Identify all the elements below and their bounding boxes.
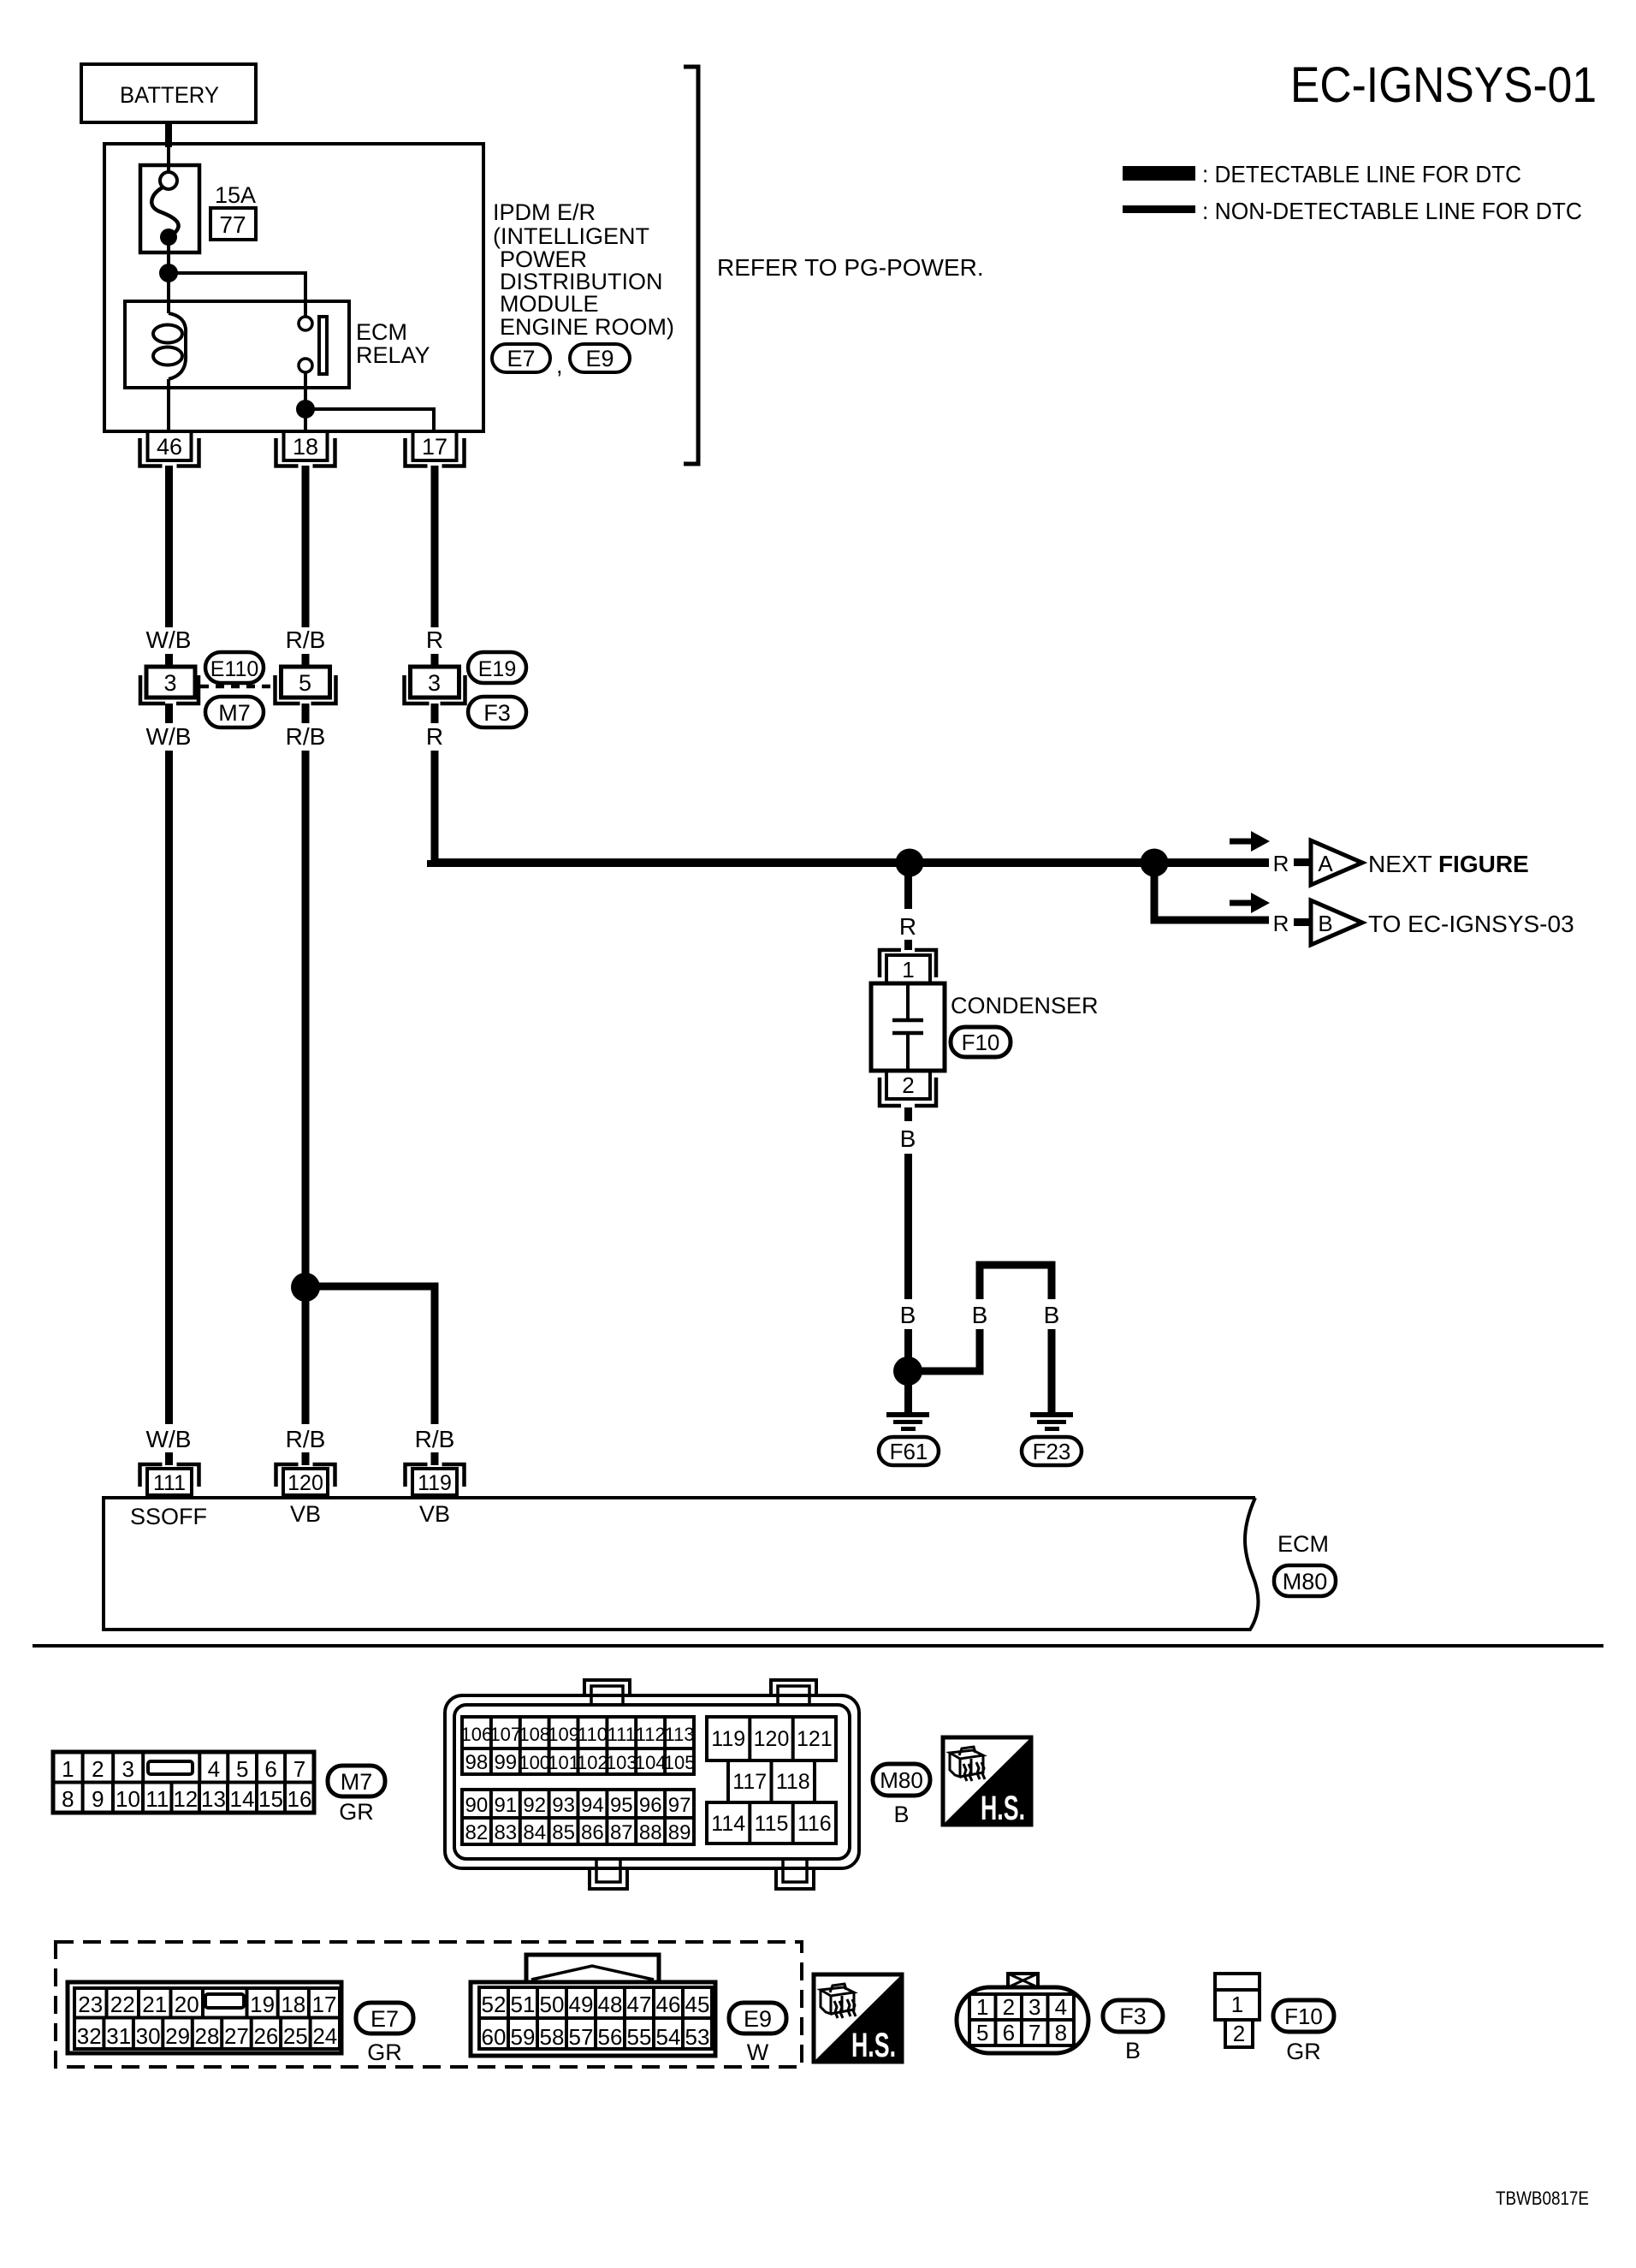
svg-text:51: 51 [511,1992,536,2017]
wire R from pin 17 [431,466,439,627]
svg-text:H.S.: H.S. [851,2027,896,2064]
svg-text:108: 108 [519,1724,550,1745]
connector M7 oval [205,697,264,727]
svg-text:B: B [893,1802,909,1827]
svg-text:25: 25 [283,2023,308,2049]
svg-text:29: 29 [165,2023,190,2049]
svg-text:5: 5 [236,1756,248,1782]
connector M80 oval label [1274,1565,1336,1596]
svg-text:28: 28 [195,2023,220,2049]
svg-text:F3: F3 [483,700,511,726]
svg-text:54: 54 [656,2024,681,2050]
svg-text:R/B: R/B [286,1426,326,1452]
svg-text:18: 18 [281,1992,305,2017]
svg-text:107: 107 [489,1724,521,1745]
svg-text:B: B [1125,2038,1141,2063]
svg-text:106: 106 [461,1724,493,1745]
condenser F10 body [871,983,945,1071]
connector F61 oval [879,1437,939,1465]
svg-text:5: 5 [299,670,311,696]
svg-text:46: 46 [656,1992,681,2017]
wire R down to trunk [431,751,439,863]
wire W/B long run [165,751,173,1424]
legend non-detectable line swatch [1123,205,1195,213]
connector M7 grid [53,1752,314,1813]
connector E7 grid [68,1982,341,2053]
svg-text:121: 121 [797,1727,833,1751]
svg-text:4: 4 [1055,1994,1067,2020]
triangle B to EC-IGNSYS-03 [1311,900,1362,945]
svg-text:17: 17 [422,434,448,460]
legend detectable line swatch [1123,166,1195,181]
connector E7 oval [492,344,550,372]
junction dot relay output [296,400,315,419]
connector E9 oval label [729,2003,786,2033]
svg-text:5: 5 [976,2020,988,2045]
pin 120 [276,1464,335,1487]
svg-text:1: 1 [62,1756,74,1782]
svg-text:B: B [1044,1302,1060,1328]
wire R/B from pin 18 [302,466,310,627]
svg-text:R: R [899,913,916,940]
svg-text:57: 57 [569,2024,594,2050]
connector F3 oval label [1103,2000,1163,2032]
arrow A [1230,839,1254,845]
ECM relay box [125,301,349,388]
svg-text:M80: M80 [880,1767,923,1793]
svg-text:7: 7 [1028,2020,1040,2045]
svg-text:50: 50 [540,1992,565,2017]
svg-text:111: 111 [608,1724,636,1745]
refer bracket [684,67,698,464]
pin 18 [284,431,328,460]
junction dot below fuse [159,264,178,282]
svg-text:115: 115 [755,1812,789,1836]
svg-text:21: 21 [142,1992,167,2017]
svg-text:BATTERY: BATTERY [120,82,219,108]
svg-text:104: 104 [635,1752,667,1773]
svg-text:113: 113 [665,1724,695,1745]
svg-text:B: B [1318,911,1332,936]
svg-text:88: 88 [639,1821,662,1844]
svg-text:ENGINE ROOM): ENGINE ROOM) [500,314,674,340]
svg-text:E9: E9 [744,2006,772,2032]
branch R/B to pin 119 [305,1286,435,1424]
svg-text:E110: E110 [210,657,259,681]
svg-text:93: 93 [552,1794,575,1817]
svg-text:119: 119 [418,1471,452,1495]
svg-text:101: 101 [548,1752,579,1773]
svg-text:TO EC-IGNSYS-03: TO EC-IGNSYS-03 [1368,911,1574,937]
svg-text:F10: F10 [1284,2004,1323,2029]
svg-text:B: B [900,1125,916,1152]
svg-text:M7: M7 [218,700,251,726]
svg-text:W/B: W/B [146,723,192,750]
inline connector 3 (E110/M7 left) [146,667,195,698]
svg-text:RELAY: RELAY [356,342,430,368]
svg-text:: DETECTABLE LINE FOR DTC: : DETECTABLE LINE FOR DTC [1202,161,1521,187]
wire stubs above connector row [165,654,173,668]
svg-text:24: 24 [312,2023,337,2049]
svg-text:2: 2 [1233,2021,1245,2046]
connector F10 oval label [951,1027,1011,1057]
svg-text:6: 6 [264,1756,276,1782]
svg-text:85: 85 [552,1821,575,1844]
svg-text:(INTELLIGENT: (INTELLIGENT [493,223,649,249]
svg-text:2: 2 [92,1756,104,1782]
svg-text:VB: VB [419,1501,450,1527]
svg-text:15A: 15A [215,182,256,208]
svg-text:REFER TO PG-POWER.: REFER TO PG-POWER. [717,254,984,281]
svg-text:118: 118 [776,1770,810,1794]
junction dot trunk B-branch [1141,849,1169,877]
svg-text:VB: VB [290,1501,321,1527]
svg-text:W/B: W/B [146,1426,192,1452]
condenser pin 2 box [886,1071,930,1099]
svg-text:20: 20 [175,1992,199,2017]
svg-text:16: 16 [287,1786,312,1812]
inline connector 3 (E19/F3) [411,667,459,698]
svg-text:86: 86 [581,1821,604,1844]
svg-text:109: 109 [548,1724,579,1745]
svg-text:GR: GR [339,1799,374,1825]
relay contact bar [319,317,327,374]
inline connector 5 [282,667,330,698]
svg-text:56: 56 [598,2024,623,2050]
wire below condenser [904,1107,912,1121]
left leg down to junction [908,1329,980,1371]
svg-text:3: 3 [1028,1994,1040,2020]
connector E110 oval [205,652,264,683]
connector F23 oval [1022,1437,1082,1465]
svg-text:22: 22 [110,1992,135,2017]
svg-text:47: 47 [627,1992,652,2017]
separator line [33,1644,1603,1648]
svg-text:103: 103 [606,1752,637,1773]
svg-text:46: 46 [157,434,182,460]
svg-text:112: 112 [636,1724,666,1745]
connector E9 grid [526,1955,659,1982]
condenser pin 1 box [886,955,930,983]
svg-text:26: 26 [253,2023,278,2049]
svg-text:15: 15 [258,1786,283,1812]
connector F10 oval label bottom [1273,2000,1334,2032]
svg-text:12: 12 [173,1786,198,1812]
branch to pin 17 [305,409,434,431]
svg-text:119: 119 [711,1727,745,1751]
svg-text:97: 97 [668,1794,691,1817]
svg-text:23: 23 [78,1992,103,2017]
ground symbol F61 [886,1412,929,1417]
svg-text:1: 1 [976,1994,988,2020]
svg-text:IPDM E/R: IPDM E/R [493,199,596,225]
svg-text:110: 110 [578,1724,608,1745]
pin 119 [406,1464,465,1487]
svg-text:18: 18 [293,434,318,460]
B branch wire [1154,863,1269,920]
wire R/B long run [302,751,310,1424]
svg-text:2: 2 [1003,1994,1015,2020]
svg-text:120: 120 [287,1471,323,1495]
ground junction dot [893,1357,922,1386]
svg-text:F10: F10 [962,1030,1000,1055]
relay contact circles [299,317,312,330]
svg-text:R/B: R/B [286,723,326,750]
svg-text:GR: GR [1286,2039,1321,2064]
svg-text:90: 90 [465,1794,489,1817]
svg-text:95: 95 [610,1794,633,1817]
H.S. view icon E7 E9 [814,1974,902,2062]
svg-text:R: R [1273,911,1289,936]
svg-text:3: 3 [122,1756,133,1782]
battery box [81,64,256,122]
connector M7 oval label [328,1766,385,1796]
trunk wire R horizontal [431,860,1269,863]
svg-text:E9: E9 [585,346,613,371]
svg-text:100: 100 [519,1752,550,1773]
wire coil to pin 46 [167,379,170,431]
H.S. view icon M80 [943,1737,1031,1825]
svg-text:: NON-DETECTABLE LINE FOR DTC: : NON-DETECTABLE LINE FOR DTC [1202,198,1582,224]
svg-text:M80: M80 [1283,1569,1328,1594]
triangle A to next figure [1311,840,1362,885]
svg-text:9: 9 [92,1786,104,1812]
M80 top tabs [584,1680,630,1697]
fuse box [140,165,199,252]
svg-text:3: 3 [163,670,176,696]
svg-text:82: 82 [465,1821,489,1844]
svg-text:94: 94 [581,1794,604,1817]
svg-text:27: 27 [224,2023,249,2049]
svg-text:F23: F23 [1033,1439,1071,1464]
arrow B [1230,900,1254,906]
pin 46 [148,431,192,460]
wire fuse to junction [167,246,170,313]
svg-text:B: B [900,1302,916,1328]
M80 left pin block upper [462,1717,694,1774]
wire trunk to condenser [904,863,912,909]
svg-text:1: 1 [1231,1992,1243,2017]
svg-text:55: 55 [627,2024,652,2050]
svg-text:2: 2 [902,1072,914,1098]
svg-text:89: 89 [668,1821,691,1844]
svg-text:R: R [426,723,443,750]
svg-text:MODULE: MODULE [500,291,599,317]
relay coil [169,313,186,379]
junction dot R/B [291,1273,320,1302]
connector M80 shell [445,1695,859,1868]
svg-text:10: 10 [116,1786,140,1812]
connector F10 cells [1215,1974,1260,2020]
svg-text:105: 105 [664,1752,696,1773]
svg-text:49: 49 [569,1992,594,2017]
svg-text:,: , [556,353,563,378]
svg-text:91: 91 [494,1794,517,1817]
svg-text:99: 99 [494,1751,517,1774]
svg-text:3: 3 [428,670,441,696]
condenser pin 1 bracket [880,950,936,977]
svg-text:E19: E19 [478,657,516,681]
svg-text:11: 11 [145,1786,169,1812]
svg-text:8: 8 [62,1786,74,1812]
svg-text:87: 87 [610,1821,633,1844]
wire W/B from pin 46 [165,466,173,627]
M80 right pin block [707,1717,836,1760]
junction dot trunk condenser [896,849,924,877]
svg-text:F3: F3 [1119,2004,1147,2029]
ground symbol F23 [1030,1412,1073,1417]
connector M80 oval label bottom [873,1764,930,1796]
svg-text:13: 13 [201,1786,226,1812]
svg-text:8: 8 [1055,2020,1067,2045]
dashed connector line [200,685,276,689]
svg-text:31: 31 [106,2023,131,2049]
svg-text:GR: GR [367,2039,402,2065]
wire stubs into ECM pins [165,1452,173,1465]
svg-text:59: 59 [511,2024,536,2050]
svg-text:EC-IGNSYS-01: EC-IGNSYS-01 [1290,57,1597,113]
svg-text:W: W [747,2039,769,2065]
svg-text:1: 1 [902,957,914,983]
svg-text:52: 52 [482,1992,507,2017]
svg-text:TBWB0817E: TBWB0817E [1496,2188,1589,2209]
svg-text:W/B: W/B [146,626,192,653]
svg-text:117: 117 [732,1770,767,1794]
wire battery to IPDM [165,121,172,147]
svg-text:30: 30 [136,2023,161,2049]
svg-text:92: 92 [523,1794,546,1817]
svg-text:6: 6 [1003,2020,1015,2045]
IPDM E/R box [104,144,483,431]
wire junction to relay contact [169,273,305,317]
svg-text:77: 77 [219,211,246,238]
ECM box [104,1498,1259,1630]
svg-text:CONDENSER: CONDENSER [951,993,1099,1018]
connector E9 oval [570,344,630,372]
capacitor symbol [906,983,910,1018]
svg-text:4: 4 [208,1756,220,1782]
dashed group box E7 E9 [56,1942,802,2067]
svg-text:96: 96 [639,1794,662,1817]
connector E7 oval label [356,2003,413,2033]
condenser pin 2 bracket [880,1078,936,1106]
svg-text:M7: M7 [341,1769,373,1795]
svg-text:ECM: ECM [1277,1531,1329,1557]
svg-text:H.S.: H.S. [981,1790,1025,1827]
M80 bottom tabs [590,1867,627,1889]
svg-text:84: 84 [523,1821,546,1844]
svg-text:ECM: ECM [356,319,407,345]
svg-text:111: 111 [153,1471,186,1495]
svg-text:83: 83 [494,1821,517,1844]
fuse symbol 15A [160,172,177,189]
svg-text:58: 58 [540,2024,565,2050]
svg-text:60: 60 [482,2024,507,2050]
svg-text:E7: E7 [507,346,535,371]
svg-text:53: 53 [685,2024,710,2050]
pin 17 [413,431,457,460]
svg-text:45: 45 [685,1992,710,2017]
svg-text:B: B [972,1302,988,1328]
connector F3 grid [1008,1974,1038,1987]
wire stubs below connector row [165,704,173,723]
connector E19 oval [468,652,526,683]
svg-text:R/B: R/B [415,1426,455,1452]
right leg down to ground [1048,1329,1056,1414]
svg-text:NEXT FIGURE: NEXT FIGURE [1368,851,1529,877]
connector F3 oval [468,697,526,727]
svg-text:120: 120 [754,1727,790,1751]
svg-text:102: 102 [577,1752,608,1773]
svg-text:17: 17 [312,1992,337,2017]
svg-text:48: 48 [598,1992,623,2017]
svg-text:R/B: R/B [286,626,326,653]
svg-text:98: 98 [465,1751,489,1774]
pin 111 [140,1464,199,1487]
ground U loop top [980,1265,1052,1299]
M80 left pin block lower [462,1790,694,1844]
wire B down [904,1154,912,1299]
wire B to ground junction [904,1329,912,1414]
svg-text:F61: F61 [890,1439,928,1464]
svg-text:14: 14 [230,1786,255,1812]
svg-text:114: 114 [711,1812,745,1836]
svg-text:R: R [426,626,443,653]
svg-text:116: 116 [797,1812,832,1836]
svg-text:7: 7 [293,1756,305,1782]
fuse number 77 box [210,208,256,240]
svg-text:SSOFF: SSOFF [130,1504,207,1529]
wire contact to pin 18 [304,372,307,431]
svg-text:E7: E7 [370,2006,399,2032]
svg-text:32: 32 [77,2023,102,2049]
svg-text:A: A [1318,851,1333,876]
svg-text:R: R [1273,851,1289,876]
svg-text:19: 19 [250,1992,275,2017]
